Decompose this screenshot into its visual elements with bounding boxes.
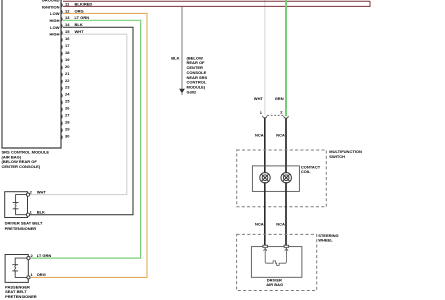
svg-text:LT GRN: LT GRN [37,253,52,258]
svg-text:LOW: LOW [50,11,60,16]
svg-text:15: 15 [65,29,70,34]
air bag terminal socket left [263,245,268,247]
multifunction switch (dashed box) [237,150,327,207]
ground G302 symbol [179,89,185,93]
svg-text:LOW: LOW [50,25,60,30]
G302 location note [187,55,208,94]
wire (NCA) right, connector to contact coil [285,118,287,173]
svg-text:ORG: ORG [75,8,84,13]
svg-text:WHEEL: WHEEL [318,237,333,242]
wire BLK pin 14 to driver pretensioner [30,27,133,214]
svg-text:23: 23 [65,85,70,90]
svg-text:13: 13 [65,15,70,20]
contact coil symbol right [281,173,291,183]
svg-text:LT GRN: LT GRN [75,15,90,20]
wire BLK/RED pin 10 (top, cut) [63,0,370,2]
svg-text:30: 30 [65,133,70,138]
svg-text:NCA: NCA [255,133,264,138]
wire (NCA) left, coil to air bag [264,182,266,245]
driver pin 1 BLK label [30,210,45,215]
multifunction switch label [329,149,362,159]
passenger pretensioner pin bumps [27,257,30,260]
svg-text:BLK: BLK [171,55,179,60]
svg-text:17: 17 [65,43,70,48]
svg-text:22: 22 [65,78,70,83]
svg-text:14: 14 [65,22,70,27]
driver seat belt pretensioner (box) [5,192,28,218]
svg-text:DRIVER SEAT BELT: DRIVER SEAT BELT [5,220,43,225]
svg-text:G302: G302 [187,89,198,94]
svg-text:BLK: BLK [37,210,45,215]
SRS connector pin bumps pins 10-30 [61,0,62,139]
wire ORG pin 12 to passenger pretensioner [30,13,147,277]
wire BLK/RED pin 11 ground [63,1,370,6]
SRS pin numbers 11-30 [65,1,70,138]
driver pretensioner squib [16,195,27,215]
svg-text:AIR BAG: AIR BAG [266,282,283,287]
driver air bag box [251,247,302,278]
svg-text:16: 16 [65,36,70,41]
air bag squib resistor [272,261,281,266]
passenger pin 1 ORG label [31,272,46,277]
driver pretensioner pin bumps [26,193,29,196]
svg-text:WHT: WHT [254,96,264,101]
svg-text:COIL: COIL [301,169,311,174]
svg-text:PRETENSIONER: PRETENSIONER [5,294,37,299]
contact coil box [252,166,299,192]
svg-text:29: 29 [65,126,70,131]
svg-text:NCA: NCA [276,133,285,138]
svg-text:CENTER CONSOLE): CENTER CONSOLE) [2,164,41,169]
svg-text:20: 20 [65,64,70,69]
svg-text:ORG: ORG [37,272,46,277]
SRS control module label [2,150,50,169]
wire GRN vertical to clockspring connector [285,0,287,116]
svg-text:GRN: GRN [275,96,284,101]
svg-text:24: 24 [65,92,70,97]
passenger seat belt pretensioner (box) [5,255,28,283]
contact coil label [301,164,321,174]
svg-text:28: 28 [65,120,70,125]
wire LT GRN pin 13 to passenger pretensioner [30,20,140,258]
SRS wire colour labels [75,1,93,34]
svg-text:25: 25 [65,99,70,104]
svg-text:19: 19 [65,57,70,62]
svg-text:26: 26 [65,106,70,111]
svg-text:27: 27 [65,113,70,118]
contact coil symbol left [260,173,270,183]
steering wheel (dashed box) [237,234,317,290]
svg-text:GROUND: GROUND [42,0,60,3]
steering wheel label [318,233,338,242]
svg-text:SWITCH: SWITCH [329,154,345,159]
svg-text:NCA: NCA [276,222,285,227]
svg-text:HIGH: HIGH [50,18,60,23]
svg-text:BLK: BLK [75,22,83,27]
driver pin 2 WHT label [30,189,47,194]
wire (NCA) right, coil to air bag [285,182,287,245]
passenger pin 2 LT GRN label [31,253,52,258]
air bag squib arrows [264,248,289,263]
svg-text:PRETENSIONER: PRETENSIONER [5,226,37,231]
passenger pretensioner label [5,285,37,299]
passenger pretensioner squib [15,258,27,277]
svg-text:HIGH: HIGH [50,32,60,37]
wire (NCA) left, connector to contact coil [264,118,266,173]
wire WHT vertical to clockspring connector [264,0,266,115]
wire BLK branch to G302 [181,6,183,89]
SRS pin function labels [42,0,60,37]
svg-text:WHT: WHT [75,29,85,34]
driver pretensioner label [5,220,43,231]
svg-text:WHT: WHT [37,189,47,194]
svg-text:IGNITION: IGNITION [42,5,60,10]
wire WHT pin 15 to driver pretensioner [30,34,127,194]
driver air bag label [266,277,283,287]
svg-text:NCA: NCA [255,222,264,227]
svg-text:21: 21 [65,71,70,76]
svg-text:BLK/RED: BLK/RED [75,1,93,6]
svg-text:12: 12 [65,8,70,13]
SRS control module U1 (box) [2,0,61,148]
air bag terminal socket right [284,245,289,247]
svg-text:18: 18 [65,50,70,55]
connector dashed link [267,114,283,116]
